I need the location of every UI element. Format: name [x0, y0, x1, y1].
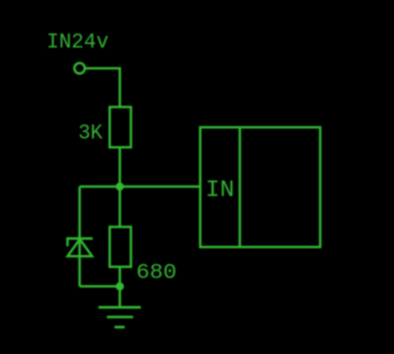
wire resistor 680 bottom to ground — [119, 267, 121, 307]
junction node A — [116, 183, 124, 191]
svg-text:IN: IN — [205, 177, 234, 203]
svg-text:3K: 3K — [78, 121, 103, 145]
wire resistor 3K bottom to node — [119, 147, 121, 186]
wire node to IN box — [80, 185, 201, 187]
wire node to resistor 680 top is part of main vertical — [119, 187, 121, 227]
IC box divider — [239, 127, 241, 247]
svg-text:680: 680 — [136, 261, 177, 285]
terminal pin circle IN24v — [74, 63, 84, 73]
junction node B — [116, 282, 124, 290]
zener diode triangle — [68, 239, 93, 256]
resistor 680 body — [110, 227, 131, 267]
svg-text:IN24v: IN24v — [47, 31, 109, 55]
resistor 3K body — [110, 107, 131, 147]
IC box U1 — [200, 127, 320, 247]
ground symbol — [99, 307, 141, 327]
wire node down left branch through zener — [78, 187, 80, 287]
wire zener bottom corner to ground node — [80, 285, 120, 287]
wire from terminal to resistor R top — [85, 68, 120, 107]
zener diode cathode bar — [68, 239, 93, 247]
